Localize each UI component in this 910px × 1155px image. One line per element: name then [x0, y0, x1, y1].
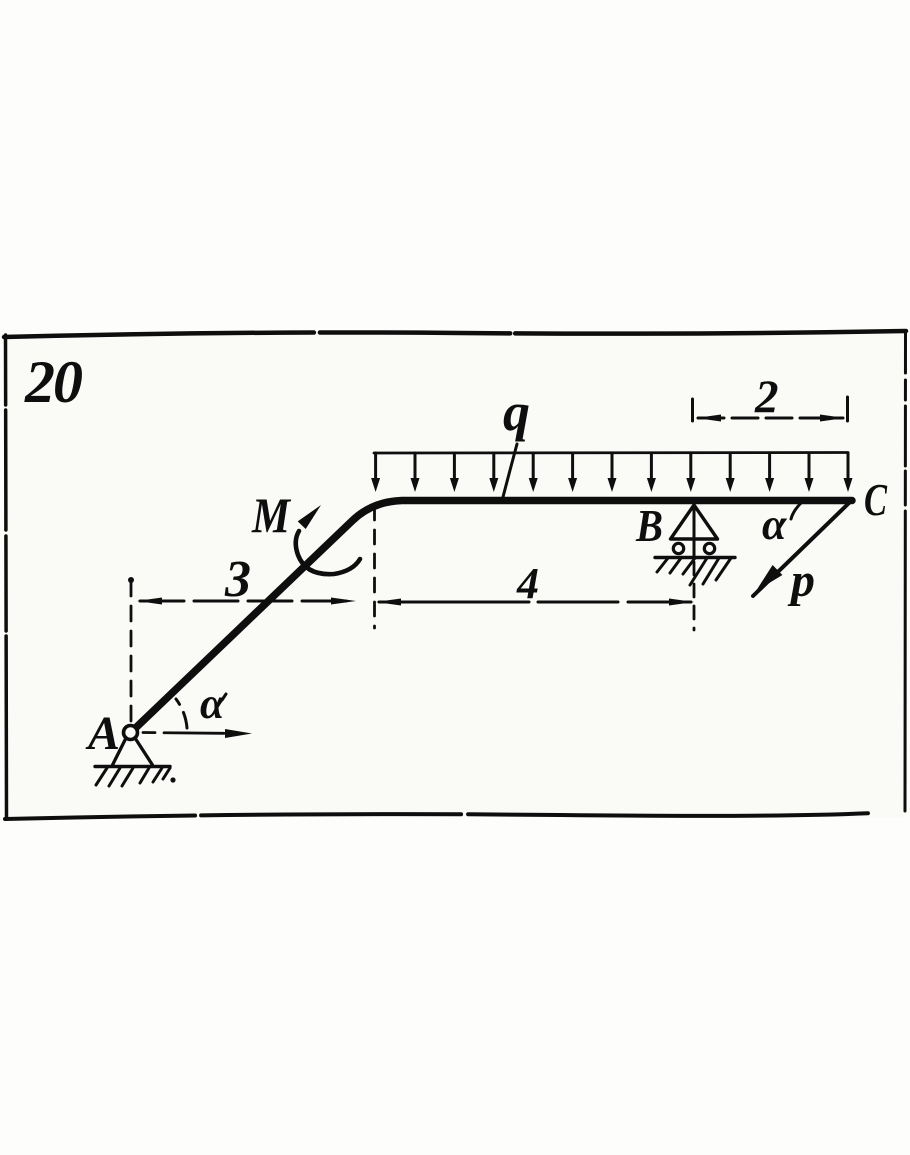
horizontal dashed reference line at A: [143, 733, 240, 734]
support A ground line: [95, 765, 170, 768]
force P line: [753, 503, 849, 596]
support A triangle legs: [113, 738, 153, 765]
force P arrowhead: [756, 565, 782, 591]
angle alpha arc at A: [176, 699, 187, 728]
dim 4 left arrow: [376, 599, 401, 606]
border right: [904, 333, 908, 814]
dashed vertical above A: [130, 581, 133, 727]
svg-text:3: 3: [224, 551, 251, 608]
alpha prime tick: [222, 694, 226, 700]
dim 2 line: [698, 417, 843, 420]
moment M arrowhead: [298, 505, 321, 529]
dim 3 line: [140, 600, 353, 603]
svg-text:20: 20: [24, 349, 82, 415]
dot after hatching: [170, 777, 175, 782]
svg-text:p: p: [787, 554, 815, 607]
box interior background: [5, 334, 905, 817]
border bottom: [5, 811, 906, 819]
dot at top of vertical: [128, 577, 134, 583]
load arrow 9: [686, 453, 695, 492]
load arrow 7: [608, 453, 617, 492]
load arrow 12: [805, 453, 814, 492]
dim 3 right arrow: [331, 598, 356, 605]
support A hatching: [96, 768, 170, 786]
distributed load top line: [374, 451, 848, 454]
member A-corner (inclined) and beam to C: [136, 501, 853, 729]
load arrow 2: [411, 453, 420, 492]
svg-text:M: M: [251, 487, 291, 543]
dim 3 left arrow: [137, 598, 162, 605]
svg-text:4: 4: [516, 559, 539, 608]
svg-text:2: 2: [754, 371, 779, 423]
border top: [4, 331, 906, 337]
load arrow 5: [529, 453, 538, 492]
support A pin circle: [124, 726, 138, 740]
support B hatching: [657, 558, 731, 585]
support B centerline: [693, 506, 696, 557]
dim 2 right arrow: [820, 415, 845, 422]
svg-text:q: q: [503, 382, 530, 442]
load arrow 1: [371, 453, 380, 492]
arrow of reference line: [225, 729, 252, 738]
svg-text:α: α: [200, 679, 225, 728]
dim 4 line: [379, 601, 691, 604]
moment M arc: [296, 531, 360, 574]
support B triangle: [671, 505, 718, 539]
dim 2 left arrow: [696, 415, 721, 422]
dim 2 tick right: [846, 397, 849, 421]
load arrow 13: [844, 453, 853, 492]
angle tick at C: [791, 503, 801, 519]
svg-text:B: B: [635, 501, 663, 551]
support B ground line: [655, 556, 735, 559]
corner dashed vertical: [373, 506, 376, 628]
load arrow 10: [726, 453, 735, 492]
load arrow 11: [765, 453, 774, 492]
dim 2 tick left: [691, 399, 694, 421]
load arrow 3: [450, 453, 459, 492]
svg-text:α: α: [762, 500, 787, 549]
support B roller left: [673, 543, 683, 553]
svg-text:A: A: [85, 707, 120, 760]
support B roller right: [704, 543, 714, 553]
load arrow 8: [647, 453, 656, 492]
load arrow 6: [568, 453, 577, 492]
dim 4 right arrow: [669, 599, 694, 606]
load arrow 4: [489, 453, 498, 492]
svg-text:C: C: [864, 474, 888, 525]
support B dashed line below: [693, 562, 696, 630]
q leader line: [503, 444, 517, 497]
border left: [6, 335, 7, 818]
